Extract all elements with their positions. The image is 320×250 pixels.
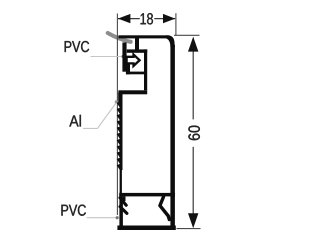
extension line left (18 dim, long) — [116, 14, 118, 216]
dimension line 60 upper segment — [192, 50, 194, 119]
arrowhead 60 up — [188, 37, 198, 52]
leader Al — [83, 103, 116, 128]
serration teeth — [117, 102, 120, 171]
brush lip (gray flexible seal) — [108, 33, 131, 42]
label Al — [69, 115, 81, 127]
left hook barb lower — [120, 207, 127, 214]
label PVC bottom — [61, 205, 85, 216]
bottom bar — [117, 226, 175, 231]
dim text 18 — [141, 13, 153, 24]
label PVC top — [65, 41, 89, 52]
left hook stub — [123, 196, 126, 201]
right hook zigzag — [160, 197, 169, 220]
extension line bottom (60 dim) — [177, 228, 201, 230]
arrowhead 60 down — [188, 213, 198, 228]
insertion arrow (outlined) — [127, 55, 140, 67]
inner shelf — [126, 72, 144, 75]
arrowhead 18 left — [118, 14, 130, 23]
dimension line 60 lower segment — [192, 147, 194, 215]
right wall — [170, 45, 175, 230]
clip box top — [127, 49, 147, 52]
stub from top bar down to clip box — [135, 38, 139, 50]
clip box bottom bar — [118, 90, 147, 94]
extension line right (18 dim) — [175, 13, 177, 35]
extension line top (60 dim) — [174, 34, 200, 36]
dimension line 18 — [118, 18, 140, 20]
arrow mount knob — [126, 64, 130, 74]
bottom-left PVC wall — [119, 196, 123, 226]
dim text 60 rotated — [188, 126, 199, 141]
clip box right wall — [144, 49, 147, 90]
left hook barb upper — [120, 198, 126, 205]
serrated wall lower piece — [120, 170, 122, 194]
arrowhead 18 right — [163, 14, 175, 23]
leader PVC top — [91, 56, 122, 58]
top-right rounded corner — [166, 35, 175, 47]
serrated wall body — [120, 102, 123, 171]
PVC insert wall (bar A) — [122, 43, 126, 72]
top bar of Al profile — [119, 35, 170, 38]
divider bar above bottom chamber — [119, 193, 175, 197]
leader PVC bottom — [87, 217, 117, 219]
serrated wall top piece — [118, 92, 122, 102]
